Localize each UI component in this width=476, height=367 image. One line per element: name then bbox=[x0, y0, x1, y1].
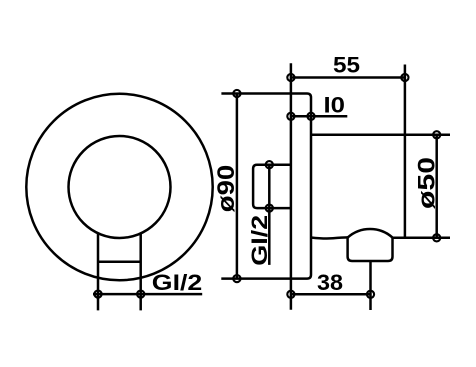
svg-text:ø90: ø90 bbox=[213, 165, 240, 213]
svg-text:I0: I0 bbox=[324, 92, 346, 117]
svg-text:ø50: ø50 bbox=[414, 157, 441, 209]
svg-text:GI/2: GI/2 bbox=[152, 270, 203, 295]
svg-text:GI/2: GI/2 bbox=[247, 215, 272, 266]
svg-text:38: 38 bbox=[317, 270, 343, 295]
svg-text:55: 55 bbox=[333, 53, 360, 78]
